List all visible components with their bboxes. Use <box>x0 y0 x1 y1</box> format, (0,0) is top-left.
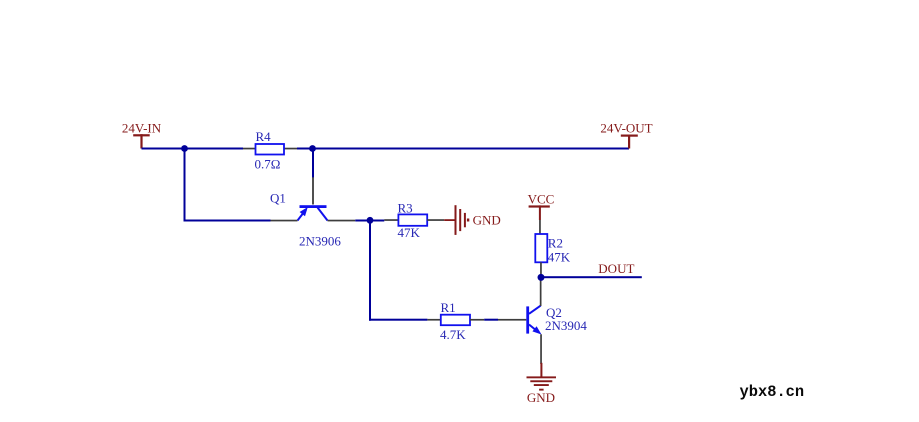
wire vertical junction C down <box>369 220 371 320</box>
svg-text:0.7Ω: 0.7Ω <box>255 157 281 172</box>
wire DOUT <box>541 276 642 278</box>
svg-text:2N3904: 2N3904 <box>545 318 587 333</box>
svg-text:R3: R3 <box>398 201 413 216</box>
svg-text:Q1: Q1 <box>270 191 286 206</box>
wire vertical from node A down to Q1 emitter row <box>184 149 186 222</box>
port 24V-OUT <box>600 121 652 149</box>
wire horizontal to R1 <box>369 319 427 321</box>
svg-text:24V-OUT: 24V-OUT <box>600 121 652 136</box>
resistor R4 <box>243 129 297 172</box>
wire top rail right <box>313 148 630 150</box>
wire top rail left <box>142 148 244 150</box>
transistor Q2 2N3904 <box>498 277 587 364</box>
wire top rail middle <box>297 148 313 150</box>
resistor R2 <box>535 220 571 277</box>
svg-text:4.7K: 4.7K <box>440 327 466 342</box>
node junction B <box>309 145 316 152</box>
svg-text:47K: 47K <box>548 249 571 264</box>
wire emitter row left <box>185 220 271 222</box>
svg-text:VCC: VCC <box>528 191 555 206</box>
svg-text:GND: GND <box>527 390 555 405</box>
svg-text:R1: R1 <box>441 300 456 315</box>
port 24V-IN <box>122 121 162 149</box>
power VCC <box>528 191 555 220</box>
power ground GND (earth style) at Q2 emitter <box>527 363 557 405</box>
svg-text:47K: 47K <box>398 225 421 240</box>
wire R1 to Q2 base <box>484 319 498 321</box>
resistor R3 <box>384 201 444 240</box>
wire Q1 base vertical <box>312 149 314 178</box>
svg-text:R2: R2 <box>548 235 563 250</box>
node junction D (DOUT) <box>538 274 545 281</box>
svg-text:ybx8.cn: ybx8.cn <box>740 383 805 401</box>
svg-text:24V-IN: 24V-IN <box>122 121 162 136</box>
node junction C <box>367 217 374 224</box>
svg-text:DOUT: DOUT <box>598 261 634 276</box>
wire emitter row right <box>355 220 384 222</box>
net label DOUT <box>598 261 634 276</box>
resistor R1 <box>427 300 484 342</box>
node junction A <box>181 145 188 152</box>
transistor Q1 2N3906 <box>270 177 355 248</box>
watermark ybx8.cn <box>740 383 805 401</box>
svg-text:2N3906: 2N3906 <box>299 234 341 249</box>
power ground GND (bar style) at R3 <box>444 205 501 235</box>
svg-text:R4: R4 <box>256 129 272 144</box>
svg-text:GND: GND <box>473 213 501 228</box>
